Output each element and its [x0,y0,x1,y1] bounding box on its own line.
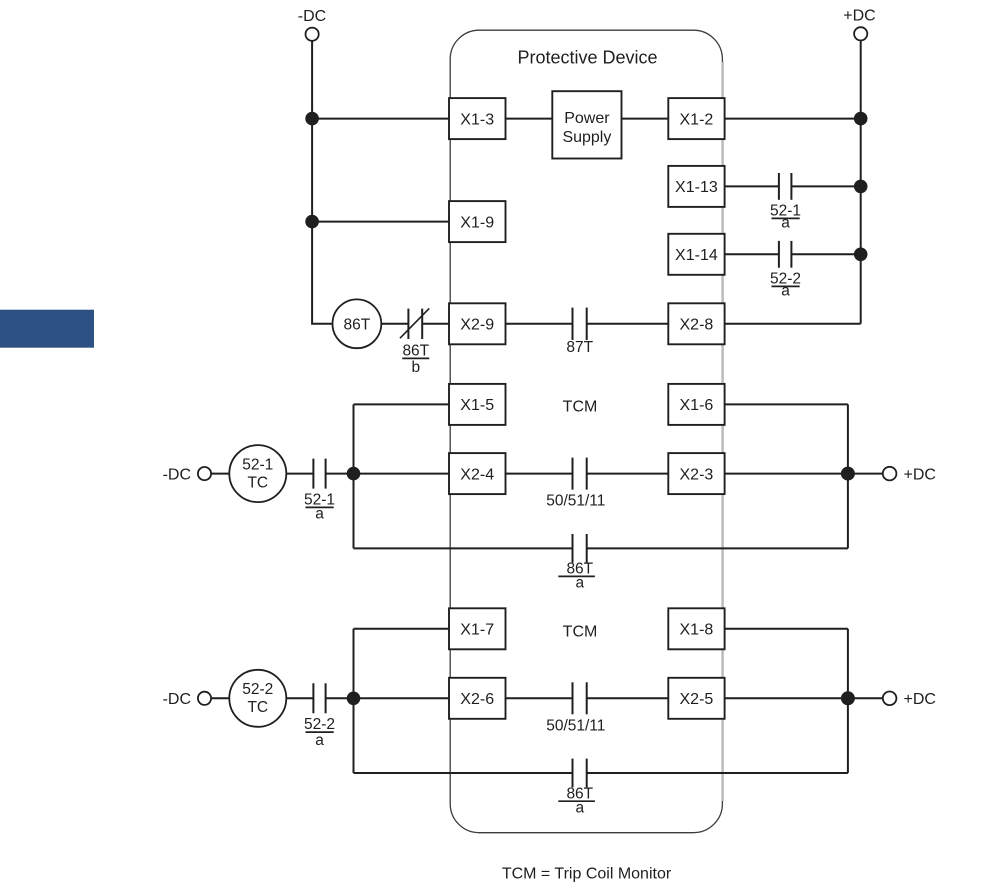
svg-text:X2-5: X2-5 [680,691,714,708]
contact 50/51/11 (middle) [573,458,587,490]
svg-text:a: a [575,799,584,816]
wire right branch vertical [847,404,849,548]
blue accent bar [0,310,94,348]
contact 52-1/a (coil circuit) [313,459,325,489]
svg-text:X2-9: X2-9 [460,317,494,334]
svg-text:86T: 86T [344,317,371,334]
coil 86T [333,299,382,348]
junction right branch [841,467,855,481]
terminal circle -DC bottom [198,692,211,705]
wire to trip coil [211,473,229,475]
terminal X2-6 [449,678,506,719]
svg-text:52-1: 52-1 [242,457,273,474]
wire X1-9 row [312,221,449,223]
trip coil 52-1 TC [229,445,286,502]
contact 52-1/a [779,173,792,200]
wire 86T to contact [381,323,408,325]
svg-text:TC: TC [247,475,268,492]
svg-text:86T: 86T [402,343,429,360]
enclosure Protective Device [450,30,722,833]
terminal X1-13 [668,166,724,207]
svg-text:a: a [781,215,790,232]
terminal circle +DC bottom [883,692,897,706]
svg-text:X1-9: X1-9 [460,214,494,231]
wire X1-3 row [312,118,449,120]
wire X2-9 to contact 87T [506,323,573,325]
svg-text:52-2: 52-2 [304,716,335,733]
terminal X2-3 [668,453,724,494]
svg-text:X2-6: X2-6 [460,691,494,708]
wire to trip coil [211,697,229,699]
svg-text:Power: Power [564,110,610,127]
contact 50/51/11 (bottom) [573,682,587,714]
svg-text:-DC: -DC [163,466,191,483]
svg-text:X2-8: X2-8 [680,317,714,334]
wire contact to right branch (bottom) [587,772,848,774]
wire contact to X2-3 [587,473,669,475]
terminal X2-8 [668,303,724,344]
svg-text:87T: 87T [566,339,593,356]
wire X2-6 to contact [506,697,573,699]
svg-text:X1-13: X1-13 [675,179,718,196]
contact 87T [573,308,587,340]
power supply box [552,91,621,158]
label 86T/b [402,343,429,377]
junction rail / X1-14 [854,248,868,262]
svg-text:TCM: TCM [563,623,598,640]
wire contact to X2-4 [326,473,449,475]
wire X2-4 to contact [506,473,573,475]
junction TCM branch [347,467,361,481]
terminal circle -DC middle [198,467,211,480]
svg-text:Protective Device: Protective Device [517,48,657,68]
terminal circle +DC middle [883,467,897,481]
wire TCM bottom row (middle) [354,547,573,549]
terminal circle -DC top [306,28,319,41]
wire coil to contact [286,697,313,699]
label 52-1/a [304,492,335,523]
terminal X1-7 [449,608,506,649]
wire right branch vertical (bottom) [847,629,849,773]
wire coil to contact [286,473,313,475]
wire contact to X2-5 [587,697,669,699]
terminal X2-5 [668,678,724,719]
wire X2-3 to +DC [725,473,883,475]
wire TCM branch vertical (bottom) [353,629,355,773]
wire contact to right branch [587,547,848,549]
label 52-2/a [304,716,335,749]
junction left rail / X1-3 [305,112,319,126]
junction rail / X1-2 [854,112,868,126]
svg-text:a: a [315,506,324,523]
svg-text:52-2: 52-2 [242,681,273,698]
label 86T/a [558,561,595,592]
svg-text:a: a [781,283,790,300]
junction TCM branch (bottom) [347,692,361,706]
svg-text:-DC: -DC [298,8,326,25]
contact 52-2/a (coil circuit) [313,683,325,713]
svg-text:50/51/11: 50/51/11 [546,718,605,735]
wire X1-13 to contact [725,185,779,187]
trip coil 52-2 TC [229,670,286,727]
wire TCM branch vertical [353,404,355,548]
wire left rail vertical [312,41,332,324]
terminal X2-4 [449,453,506,494]
svg-text:a: a [315,732,324,749]
junction right branch (bottom) [841,691,855,705]
svg-text:X2-4: X2-4 [460,466,494,483]
terminal X1-2 [668,98,724,139]
svg-text:Supply: Supply [562,129,611,146]
label 86T/a (bottom) [558,785,595,816]
svg-text:TCM = Trip Coil Monitor: TCM = Trip Coil Monitor [502,866,672,883]
svg-text:TCM: TCM [563,399,598,416]
terminal X1-14 [668,234,724,275]
wire to X1-5 [354,403,450,405]
svg-text:X1-6: X1-6 [680,397,714,414]
svg-text:a: a [575,575,584,592]
wire contact 87T to X2-8 [587,323,669,325]
contact 52-2/a [779,241,792,268]
wire power supply to X1-2 [622,118,669,120]
terminal X1-5 [449,384,506,425]
contact 86T/a (bottom) [573,759,587,788]
svg-text:50/51/11: 50/51/11 [546,493,605,510]
terminal X1-6 [668,384,724,425]
label 52-1/a [770,203,801,232]
svg-text:+DC: +DC [843,8,875,25]
contact 86T/a (middle) [573,534,587,563]
svg-text:b: b [411,359,420,376]
svg-text:X1-5: X1-5 [460,397,494,414]
terminal X1-9 [449,201,506,242]
svg-text:-DC: -DC [163,691,191,708]
terminal X1-3 [449,98,506,139]
contact 86T/b [400,308,429,339]
svg-text:X1-8: X1-8 [680,622,714,639]
label 52-2/a [770,271,801,300]
terminal X1-8 [668,608,724,649]
junction rail / X1-13 [854,180,868,194]
terminal circle +DC top [854,27,867,40]
svg-text:+DC: +DC [904,466,936,483]
wire X1-3 to power supply [506,118,553,120]
svg-text:X2-3: X2-3 [680,466,714,483]
svg-text:TC: TC [247,699,268,716]
svg-text:X1-3: X1-3 [460,111,494,128]
wire X1-8 to right branch [725,628,848,630]
wire X1-14 to contact [725,253,779,255]
svg-text:+DC: +DC [904,691,936,708]
wire contact to X2-6 [326,697,449,699]
wire to X1-7 [354,628,450,630]
wire contact to rail [791,185,860,187]
wire right rail vertical [860,40,862,323]
svg-text:X1-7: X1-7 [460,622,494,639]
wire X1-6 to right branch [725,403,848,405]
svg-text:X1-14: X1-14 [675,247,718,264]
wire TCM bottom row (bottom) [354,772,573,774]
junction left rail / X1-9 [305,215,319,229]
wire X2-5 to +DC [725,697,883,699]
wire contact to rail [791,253,860,255]
wire X2-8 to rail corner [725,323,861,325]
terminal X2-9 [449,303,506,344]
svg-text:X1-2: X1-2 [680,111,714,128]
wire X1-2 to rail [725,118,861,120]
wire contact 86T/b to X2-9 [422,323,449,325]
